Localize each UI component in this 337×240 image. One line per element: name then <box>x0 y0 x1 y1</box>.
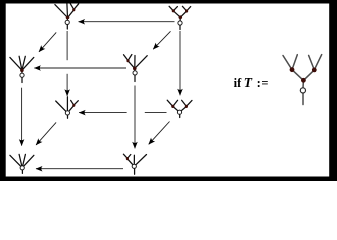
svg-text:T: T <box>244 75 253 90</box>
svg-text::=: := <box>257 76 270 90</box>
svg-text:if: if <box>234 76 242 90</box>
